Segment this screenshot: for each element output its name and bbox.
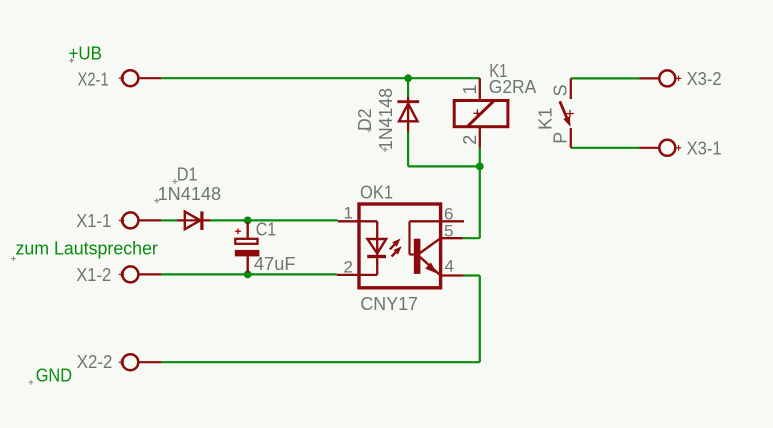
label zum Lautsprecher [11,238,158,261]
node junction +UB / D2 cathode [404,74,412,82]
svg-text:D2: D2 [355,109,375,132]
relay coil K1 G2RA [454,78,508,147]
node junction relay pin2 / OK1 collector [476,163,484,171]
wire +UB top from X2-1 to relay pin 1 [161,77,480,79]
OK1 pin 2 stub [337,274,359,276]
wire switch S to X3-2 [571,77,640,79]
wire node down to OK1 pin 5 corner [479,166,481,238]
connector pin X3-2 [640,70,682,86]
optocoupler OK1 CNY17 [337,204,464,288]
wire D2 anode to relay pin 2 node [408,165,480,167]
svg-text:P: P [550,132,570,144]
svg-text:X1-2: X1-2 [76,265,111,285]
node junction X1-2 / C1 minus [244,271,252,279]
wire X1-1 to D1 anode [161,219,177,221]
wire D1 cathode to OK1 pin 1, through C1 junction [210,219,338,221]
wire D2 anode down [407,131,409,166]
capacitor C1 47uF [235,222,260,273]
wire relay pin 2 down to node [479,148,481,167]
label 1N4148 (D1 value) [154,184,221,204]
wire corner to OK1 pin 4 [464,274,480,276]
svg-text:5: 5 [444,222,453,241]
diode D2 1N4148 (flyback) [397,97,419,132]
svg-text:K1: K1 [536,108,556,131]
label D2 (rotated) [355,109,375,133]
diode D1 1N4148 [177,211,210,230]
node junction D1 / C1 plus [244,217,252,225]
svg-text:4: 4 [445,257,454,276]
relay contact K1 (switch) [560,78,574,147]
OK1 light arrows [390,244,396,250]
connector pin X2-1 [119,70,161,86]
svg-text:OK1: OK1 [360,182,393,202]
svg-text:X2-2: X2-2 [77,352,113,372]
connector pin X3-1 [640,140,682,156]
svg-text:1N4148: 1N4148 [376,88,396,150]
svg-text:1: 1 [344,204,353,223]
wire junction to D2 cathode [407,78,409,97]
label D1 [172,164,197,184]
svg-text:47uF: 47uF [254,254,296,274]
wire switch P to X3-1 [571,147,640,149]
OK1 pin 5 stub [441,237,463,239]
OK1 phototransistor [410,220,441,222]
svg-text:CNY17: CNY17 [360,294,418,314]
svg-text:2: 2 [344,258,353,277]
connector pin X2-2 [119,354,161,370]
wire corner to OK1 pin 5 [463,237,480,239]
OK1 internal LED [359,220,377,222]
label 1N4148 (D2 value, rotated) [376,88,396,152]
svg-text:GND: GND [36,365,72,385]
OK1 pin 4 stub [441,274,464,276]
svg-text:S: S [550,84,570,96]
svg-text:C1: C1 [256,220,277,240]
wire GND from X2-2 to below OK1 [161,361,480,363]
wire X1-2 to OK1 pin 2 [161,273,337,275]
svg-text:X2-1: X2-1 [78,69,109,89]
svg-text:X1-1: X1-1 [76,211,111,231]
connector pin X1-2 [119,266,161,282]
svg-text:D1: D1 [177,164,198,184]
label GND [29,365,72,385]
label +UB [69,44,103,64]
svg-text:1N4148: 1N4148 [158,184,222,204]
OK1 pin 6 stub (base, open) [441,220,464,222]
connector pin X1-1 [119,212,161,228]
svg-text:zum Lautsprecher: zum Lautsprecher [16,238,158,258]
svg-text:+UB: +UB [69,44,103,64]
svg-text:2: 2 [460,135,480,145]
svg-text:G2RA: G2RA [489,77,537,97]
svg-text:X3-2: X3-2 [687,69,722,89]
svg-text:1: 1 [460,84,480,94]
OK1 pin 1 stub [338,220,359,222]
svg-text:X3-1: X3-1 [687,139,722,159]
wire GND riser to OK1 pin 4 corner [479,276,481,363]
